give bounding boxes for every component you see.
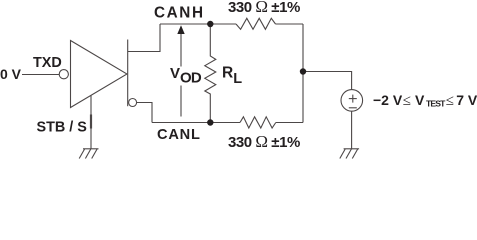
output bubble (CANL) [129,99,137,107]
svg-text:CANL: CANL [157,127,201,143]
wire junction to source [303,72,352,90]
wire VOD arrow shaft [180,33,182,67]
svg-text:330 Ω ±1%: 330 Ω ±1% [228,132,300,151]
node CANL junction [207,119,213,125]
node CANH junction [207,21,213,27]
wire bottom branch to CANL [137,103,152,123]
wire source to ground [351,111,353,148]
ground (source) [340,149,359,159]
svg-text:TXD: TXD [33,55,62,71]
svg-text:RL: RL [222,65,242,88]
wire top branch to CANH [128,24,160,52]
wire STB pin thick segment [90,115,92,129]
VOD arrowhead [177,25,184,34]
wire right rail [302,24,304,123]
wire CANL to rail [276,122,303,124]
svg-text:VOD: VOD [170,65,202,87]
resistor RL vertical [205,24,216,123]
wire CANH [160,23,236,25]
wire STB pin [90,95,92,148]
node rail junction [300,68,306,74]
svg-text:330 Ω ±1%: 330 Ω ±1% [228,0,300,16]
voltage source V1 [341,90,363,112]
op-amp U1 driver triangle [71,41,128,108]
wire CANL [152,122,240,124]
wire CANH to rail [276,23,304,25]
wire TXD input [22,74,59,76]
svg-text:−2 V≤VTEST≤7 V: −2 V≤VTEST≤7 V [373,92,477,109]
ground (STB) [79,149,98,159]
input bubble [59,70,68,79]
wire output stem [127,40,129,107]
resistor 330 ohm bottom [240,117,276,128]
svg-text:0 V: 0 V [0,66,22,82]
svg-text:CANH: CANH [154,5,205,22]
svg-text:STB / S: STB / S [37,120,88,136]
resistor 330 ohm top [236,18,276,29]
